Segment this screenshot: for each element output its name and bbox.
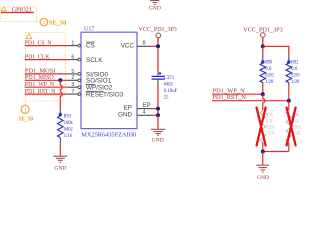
svg-text:3: 3	[71, 82, 74, 88]
svg-text:GND: GND	[149, 5, 161, 11]
svg-text:5: 5	[71, 69, 74, 75]
power node circle right	[260, 33, 265, 38]
svg-text:GND: GND	[257, 175, 269, 181]
DNI X mark R96	[287, 108, 296, 146]
flash memory U17	[81, 32, 137, 128]
wire PD1_WP_N right	[212, 93, 263, 95]
svg-text:1/16: 1/16	[64, 133, 72, 139]
junction dot WP/R90	[261, 92, 265, 96]
wire pin4	[151, 114, 158, 116]
pin stub R93 top	[59, 109, 61, 113]
pin 8 VCC	[137, 45, 151, 47]
wire PD1_CS_N	[25, 45, 68, 47]
annotation box GPIO21	[1, 7, 37, 22]
svg-text:SCLK: SCLK	[86, 57, 103, 64]
svg-text:R93: R93	[64, 113, 71, 119]
svg-text:100k: 100k	[64, 120, 73, 126]
ground under R93	[53, 156, 67, 171]
resistor R90	[260, 55, 274, 95]
wire R96 to junction	[263, 151, 289, 153]
pin stub PD1_MISO	[68, 79, 78, 81]
svg-text:1: 1	[24, 109, 27, 114]
svg-text:6: 6	[71, 55, 74, 61]
ground under chip	[151, 129, 165, 143]
svg-text:0402: 0402	[64, 126, 73, 132]
SE_50 group marker 1	[40, 18, 47, 25]
annotation box PD1 signals	[25, 32, 65, 95]
junction dot RST/R92	[287, 99, 291, 103]
svg-text:VCC: VCC	[121, 43, 135, 50]
pin stub PD1_WP_N	[68, 86, 78, 88]
svg-text:SE_50: SE_50	[49, 20, 67, 26]
svg-text:2: 2	[71, 75, 74, 81]
svg-text:MX25R6435FZAIH0: MX25R6435FZAIH0	[81, 133, 136, 139]
leader dash horizontal	[30, 100, 66, 102]
wire PD1_MISO	[25, 79, 68, 81]
wire MISO drop with hops	[60, 80, 62, 109]
variant marker triangle	[1, 6, 6, 10]
svg-text:8: 8	[143, 41, 146, 47]
svg-text:7: 7	[71, 89, 74, 95]
svg-text:VCC_PD1_3P3: VCC_PD1_3P3	[139, 27, 177, 33]
resistor R93	[59, 113, 62, 116]
wire PD1_RST_N	[25, 93, 68, 95]
svg-text:1: 1	[43, 21, 46, 26]
svg-text:25: 25	[164, 95, 169, 101]
pin stub R93 bottom	[59, 138, 61, 144]
svg-text:0201: 0201	[265, 73, 274, 79]
svg-text:PD1_RST_N: PD1_RST_N	[213, 94, 247, 101]
svg-text:1/20: 1/20	[265, 79, 273, 85]
ground right	[256, 165, 269, 181]
svg-text:1/20: 1/20	[266, 130, 274, 136]
junction dot MISO	[58, 78, 62, 82]
resistor R95 (DNI)	[260, 111, 275, 143]
svg-text:1: 1	[71, 41, 74, 47]
wire GPIO21 stub	[1, 12, 34, 14]
wire to right ground	[262, 152, 264, 165]
svg-text:GND: GND	[118, 111, 132, 118]
SE_50 group marker 2	[21, 105, 29, 113]
wire R90 node down with hop over RST	[263, 94, 265, 110]
wire R96 bottom	[288, 143, 290, 152]
ground fragment top	[149, 1, 161, 12]
wire right trunk	[262, 37, 264, 46]
svg-text:SE_50: SE_50	[18, 116, 33, 122]
wire branch to R92	[263, 46, 289, 54]
svg-text:GND: GND	[54, 166, 66, 172]
wire PD1_WP_N	[25, 86, 68, 88]
junction dot gnd right	[261, 150, 265, 154]
pin stub PD1_CLK	[68, 59, 78, 61]
junction dot right vcc	[261, 44, 265, 48]
DNI X mark R95	[257, 108, 266, 146]
variant marker triangle 2	[26, 33, 32, 39]
resistor R96 (DNI)	[286, 111, 301, 143]
svg-text:0402: 0402	[164, 82, 173, 88]
svg-text:1/20: 1/20	[291, 79, 299, 85]
wire cap to EP node	[157, 85, 159, 116]
svg-text:RESET/SIO3: RESET/SIO3	[86, 92, 124, 99]
pin stub PD1_CS_N	[68, 45, 78, 47]
svg-text:CS: CS	[86, 42, 95, 49]
wire down to R90	[262, 46, 264, 54]
svg-text:C373: C373	[164, 75, 174, 81]
pin stub PD1_MOSI	[68, 73, 78, 75]
leader dash vertical	[24, 96, 26, 105]
leader dash to SE_50	[37, 21, 40, 23]
wire PD1_CLK	[25, 59, 68, 61]
svg-text:EP: EP	[143, 103, 151, 109]
wire R95 bottom	[262, 143, 264, 152]
svg-text:0.10uF: 0.10uF	[164, 88, 178, 94]
pin 4 GND	[137, 114, 151, 116]
wire EP	[151, 108, 158, 110]
svg-text:U17: U17	[84, 27, 94, 33]
power node circle	[156, 33, 161, 38]
junction dot EP	[156, 107, 160, 111]
pin stub PD1_RST_N	[68, 93, 78, 95]
svg-text:0201: 0201	[291, 73, 300, 79]
resistor R92	[286, 55, 300, 101]
svg-text:R90: R90	[265, 60, 272, 66]
wire R93 to ground	[59, 143, 61, 156]
svg-text:4: 4	[143, 110, 146, 116]
wire R92 node down	[288, 101, 290, 110]
svg-text:0.0: 0.0	[265, 66, 271, 72]
wire PD1_RST_N right	[212, 100, 289, 102]
svg-text:0.0: 0.0	[291, 66, 297, 72]
junction dot GND pin	[156, 113, 160, 117]
svg-text:GND: GND	[152, 138, 164, 144]
wire PD1_MOSI	[25, 73, 68, 75]
wire to ground	[157, 115, 159, 129]
wire vcc trunk	[157, 38, 159, 71]
junction dot pin8	[156, 44, 160, 48]
wire pin8 to vcc net	[151, 45, 158, 47]
pin EP	[137, 108, 151, 110]
capacitor C373	[157, 70, 159, 76]
svg-text:R92: R92	[291, 60, 298, 66]
